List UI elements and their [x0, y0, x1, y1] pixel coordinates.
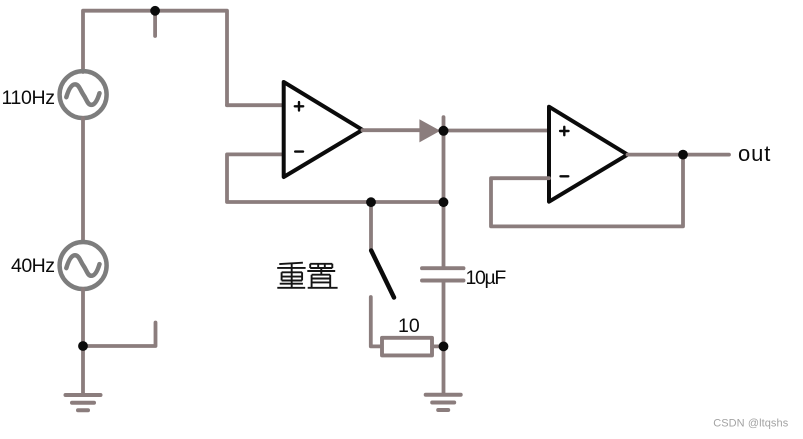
wire below V2: [81, 289, 85, 394]
label 重置 (drawn strokes): [277, 263, 337, 288]
svg-text:40Hz: 40Hz: [11, 255, 55, 277]
wire capacitor bottom down: [442, 281, 446, 395]
wire stub below top junction: [153, 11, 157, 36]
wire diode junction to opamp2 plus: [440, 129, 549, 133]
wire resistor to junction: [432, 344, 444, 348]
resistor R1: [382, 338, 432, 356]
svg-text:CSDN @ltqshs: CSDN @ltqshs: [713, 418, 789, 430]
switch lever: [371, 251, 394, 298]
svg-text:110Hz: 110Hz: [2, 87, 56, 109]
wire opamp1 output: [363, 128, 421, 132]
capacitor C1: [422, 268, 464, 280]
wire opamp1 plus input: [227, 103, 284, 107]
svg-text:10µF: 10µF: [466, 267, 507, 289]
wire switch bottom post: [371, 297, 381, 346]
node junction top: [150, 6, 160, 16]
wire feedback loop opamp2: [491, 155, 683, 227]
wire right stub from bottom junction: [83, 323, 156, 347]
ground right: [426, 395, 461, 410]
node junction resistor-cap: [439, 342, 449, 352]
ground left: [66, 395, 101, 410]
voltage source V2 40Hz: [60, 242, 107, 289]
svg-text:out: out: [738, 141, 771, 166]
wire diode junction down to capacitor: [442, 131, 446, 268]
wire opamp2 output: [628, 153, 730, 157]
node junction output: [678, 150, 688, 160]
voltage source V1 110Hz: [60, 71, 107, 118]
node junction bottom-left: [78, 341, 88, 351]
wire between sources: [81, 118, 85, 242]
wire opamp1 minus loop: [227, 154, 444, 202]
switch S1: [369, 202, 373, 250]
svg-text:10: 10: [398, 315, 420, 337]
wire top horizontal: [83, 11, 227, 106]
node junction switch top: [366, 197, 376, 207]
node junction cap top wire: [439, 197, 449, 207]
node junction diode: [439, 126, 449, 136]
op-amp U2: [549, 107, 628, 202]
op-amp U1: [284, 82, 363, 177]
wire stub above diode junction: [442, 117, 446, 131]
diode D1: [419, 119, 440, 142]
